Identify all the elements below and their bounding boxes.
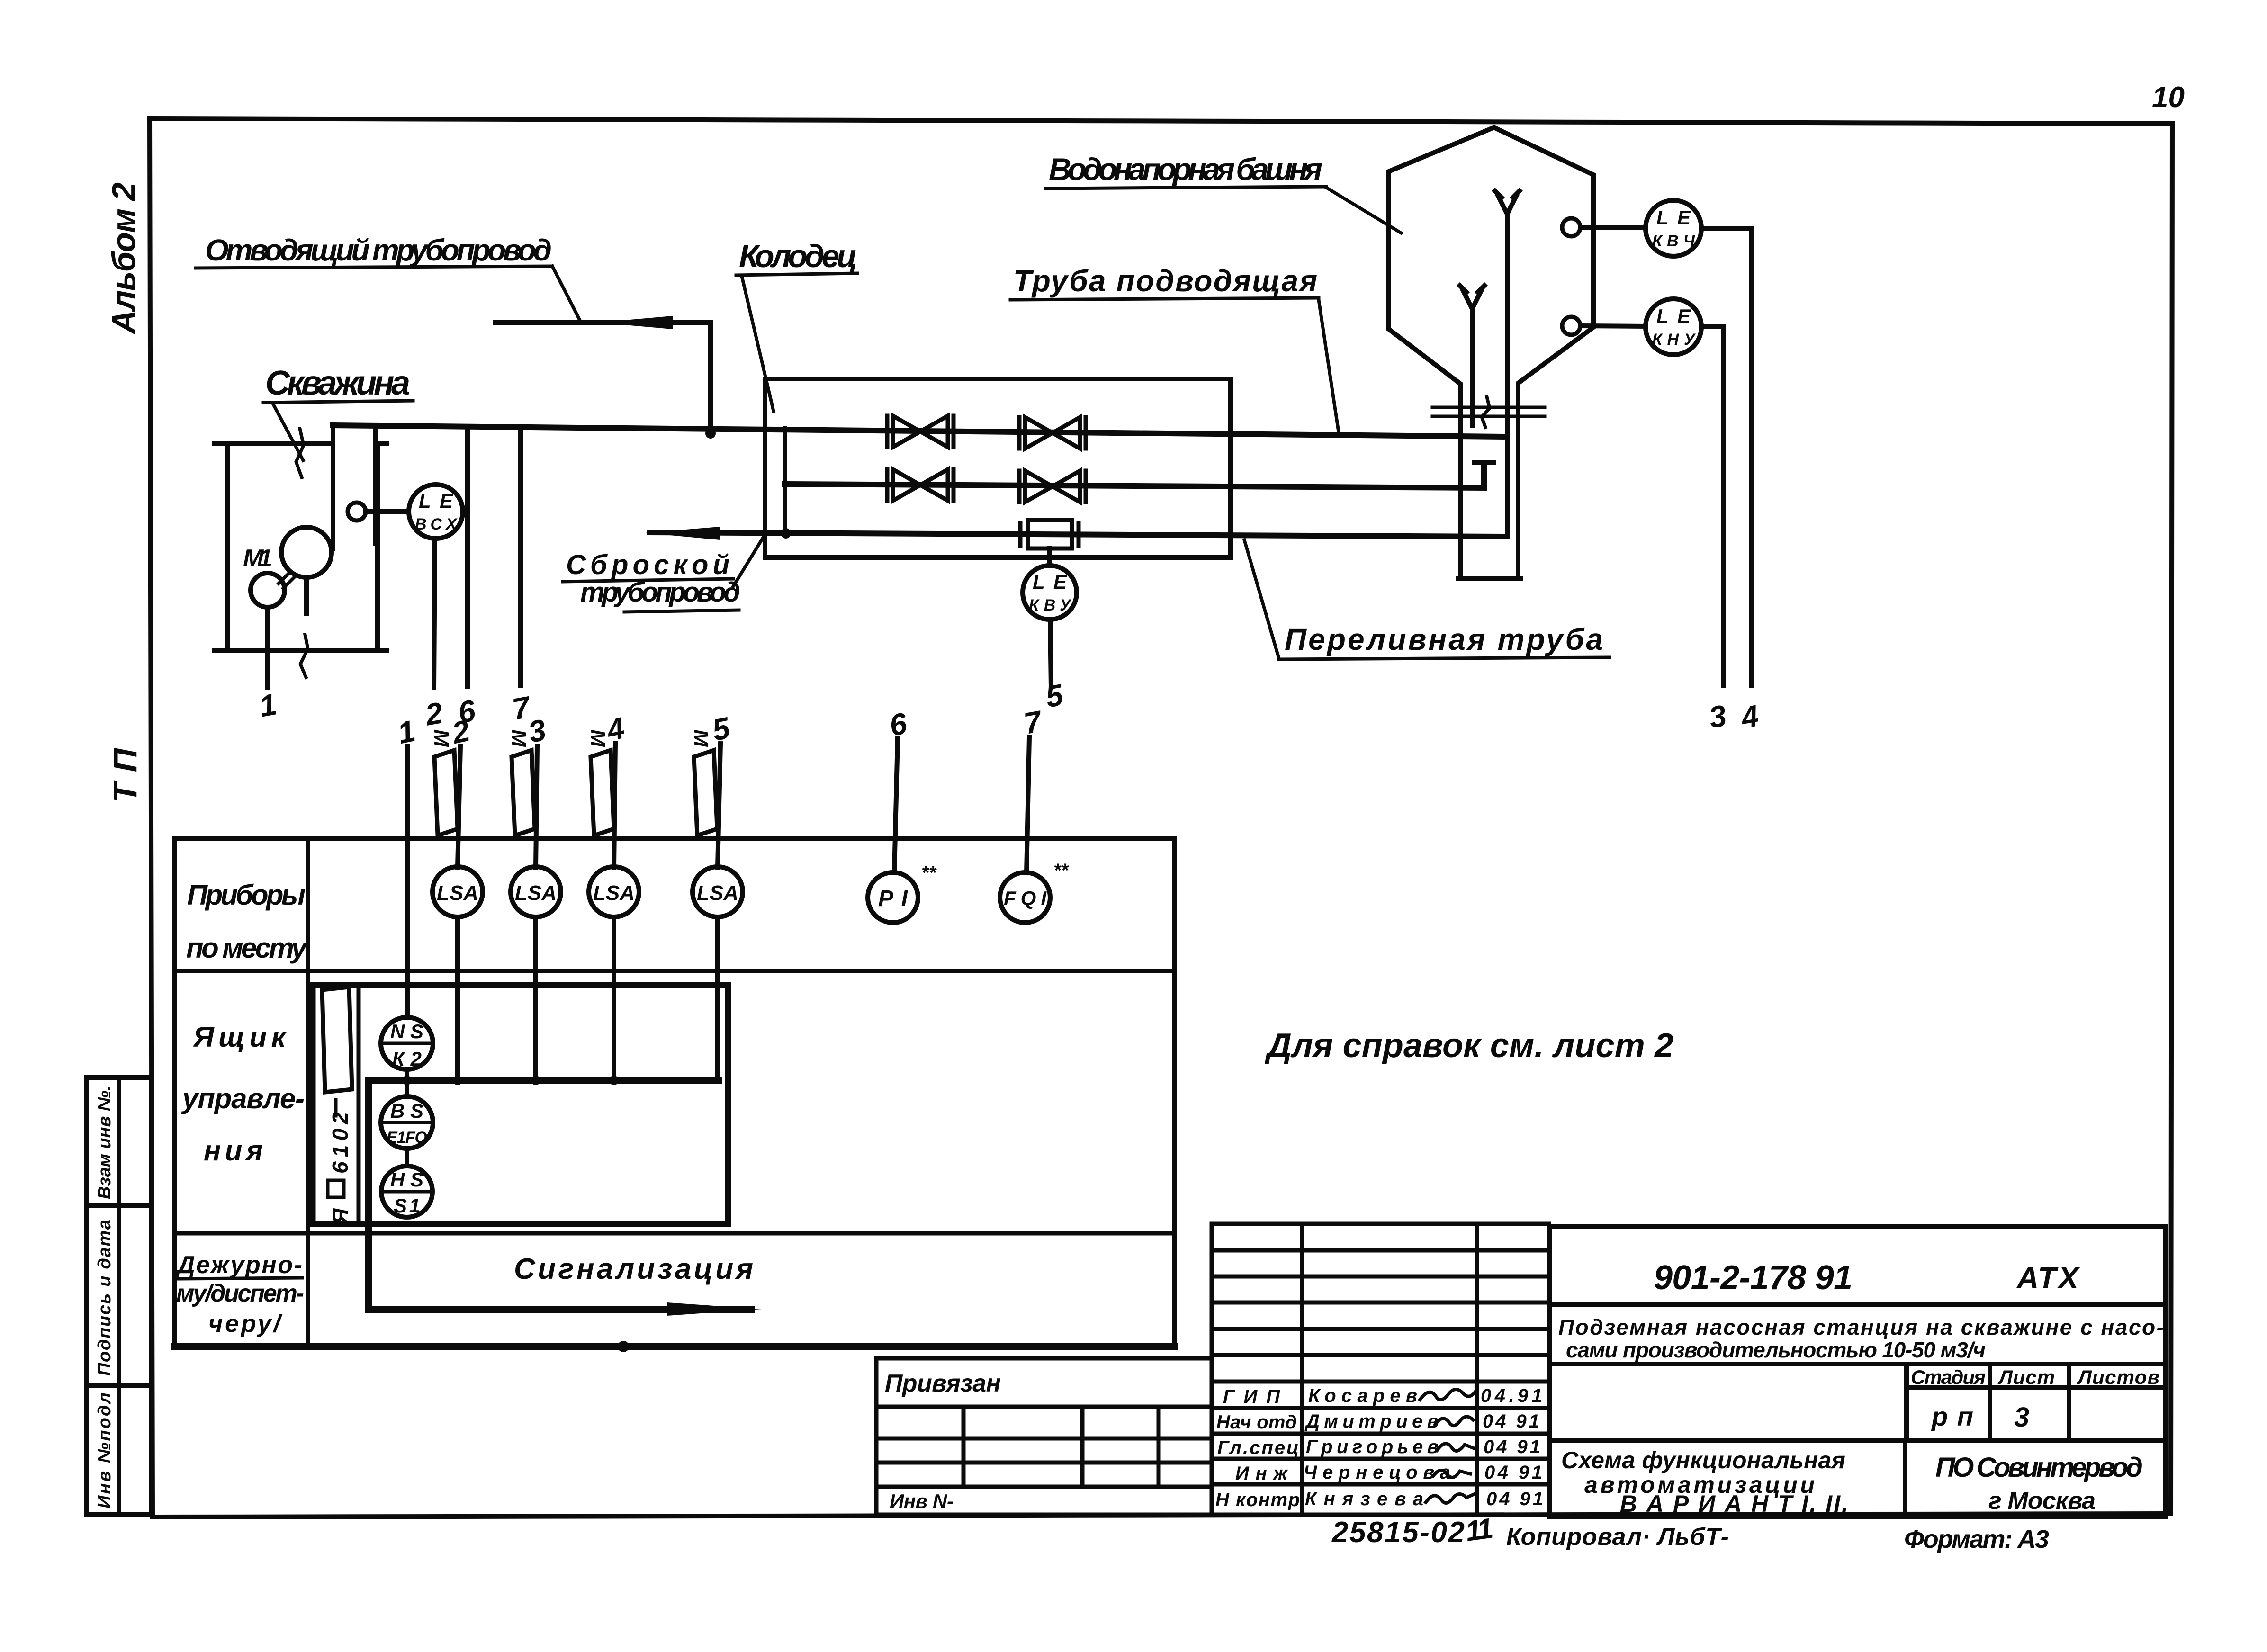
svg-text:**: **: [921, 862, 937, 883]
signature row Гл.спец: [1217, 1437, 1540, 1458]
wire BS to HS: [405, 1149, 409, 1166]
svg-text:трубопровод: трубопровод: [580, 577, 740, 608]
leader to well box: [273, 404, 303, 460]
svg-text:Е1FQ: Е1FQ: [387, 1129, 427, 1147]
wire L4 to LSA3: [614, 744, 615, 867]
wire device to LE КВУ: [1047, 548, 1052, 566]
svg-text:ния: ния: [204, 1135, 263, 1167]
motor M1 circle: [251, 573, 285, 607]
node bus/NS: [402, 1076, 412, 1085]
svg-text:ПО Совинтервод: ПО Совинтервод: [1935, 1452, 2143, 1483]
svg-text:Листов: Листов: [2077, 1366, 2159, 1388]
wire LSA3 to bus: [612, 917, 616, 1080]
node bus/LSA2: [531, 1076, 540, 1085]
valve V2 on pipe1: [1019, 417, 1086, 449]
svg-text:Водонапорная башня: Водонапорная башня: [1049, 152, 1322, 187]
signature scribble 2: [1435, 1417, 1473, 1426]
svg-text:04 91: 04 91: [1483, 1411, 1539, 1432]
wire stub to LE КНУ: [1580, 326, 1646, 326]
svg-text:LSA: LSA: [593, 881, 635, 905]
branch wire pipe1 to pipe3: [783, 429, 787, 533]
water tower body: [1389, 127, 1593, 579]
label Труба подводящая: [1010, 264, 1339, 432]
svg-text:Ящик: Ящик: [192, 1021, 287, 1053]
svg-text:Копировал· ЛьбТ-: Копировал· ЛьбТ-: [1506, 1523, 1729, 1551]
row label Дежурному/диспетчеру: [175, 1251, 304, 1338]
svg-text:М: М: [586, 729, 609, 747]
label Скважина: [263, 364, 413, 460]
flow device on pipe3: [1020, 520, 1079, 548]
svg-text:04.91: 04.91: [1481, 1385, 1542, 1406]
instrument LE КВЧ: [1646, 200, 1701, 256]
wire LSA1 to bus: [455, 917, 460, 1080]
wire L1 to NS/K2: [407, 746, 408, 1018]
drain pipe 3: [650, 532, 1506, 537]
svg-text:04 91: 04 91: [1484, 1437, 1540, 1457]
pressure tap wire 6: [465, 427, 470, 687]
svg-text:11: 11: [1464, 1512, 1495, 1547]
svg-text:сами производительностью 1: сами производительностью 10-50 м3/ч: [1566, 1338, 1986, 1362]
stadia header: [1911, 1366, 2159, 1388]
tank sensor stub upper: [1562, 218, 1580, 236]
instrument NS/K2: [381, 1017, 433, 1070]
svg-text:Приборы: Приборы: [187, 879, 306, 911]
leader to drain junction: [733, 535, 765, 586]
supply riser in tower: [1460, 286, 1484, 425]
node bus/LSA3: [609, 1076, 619, 1085]
svg-text:Инв N-: Инв N-: [890, 1490, 954, 1512]
svg-text:АТХ: АТХ: [2016, 1261, 2080, 1295]
leader to overflow: [1244, 540, 1279, 658]
actuator symbol M2s: [507, 729, 535, 835]
drain flow arrow: [645, 527, 720, 540]
svg-text:LSA: LSA: [515, 881, 557, 905]
flow arrow on discharge pipe: [598, 316, 673, 329]
svg-text:М: М: [689, 729, 712, 747]
svg-text:Подземная насосная станция: Подземная насосная станция на скважине с…: [1558, 1315, 2164, 1339]
leader to chamber: [742, 276, 774, 411]
label Отводящий трубопровод: [196, 233, 580, 320]
svg-text:Сброской: Сброской: [566, 549, 729, 580]
svg-text:Привязан: Привязан: [885, 1370, 1001, 1397]
wire L5 to LSA4: [718, 744, 720, 867]
instrument LSA 1: [432, 867, 483, 917]
wire LSA4 to bus: [715, 917, 720, 1080]
svg-text:Взам инв №.: Взам инв №.: [95, 1086, 115, 1199]
svg-text:Стадия: Стадия: [1911, 1366, 1986, 1388]
svg-text:по месту: по месту: [186, 932, 308, 964]
svg-text:Лист: Лист: [1997, 1366, 2055, 1388]
pipe2 end cap: [1474, 460, 1494, 465]
svg-text:Подпись и дата: Подпись и дата: [95, 1220, 115, 1376]
pump tail line: [304, 577, 309, 613]
wire 3 from LE КНУ: [1701, 327, 1724, 686]
svg-text:М: М: [507, 729, 530, 747]
signature scribble 5: [1426, 1494, 1475, 1503]
instrument LSA 3: [589, 867, 639, 917]
main stamp: [1550, 1227, 2166, 1517]
actuator symbol M3s: [586, 729, 614, 835]
svg-text:S1: S1: [394, 1194, 420, 1217]
svg-text:Труба подводящая: Труба подводящая: [1013, 264, 1317, 298]
svg-text:Отводящий трубопровод: Отводящий трубопровод: [205, 233, 552, 267]
node branch/pipe3: [781, 528, 791, 539]
svg-text:Сигнализация: Сигнализация: [514, 1253, 753, 1285]
wire L2 to LSA1: [458, 746, 460, 867]
wire stub to LE КВЧ: [1580, 227, 1646, 228]
svg-text:г Москва: г Москва: [1988, 1487, 2096, 1515]
leader to supply pipe: [1319, 300, 1339, 432]
svg-text:Григорьев: Григорьев: [1306, 1437, 1439, 1457]
svg-text:LSA: LSA: [697, 881, 738, 905]
overflow pipe in tower: [1495, 191, 1520, 537]
signature row Н контр: [1215, 1489, 1543, 1510]
svg-text:Я: Я: [328, 1208, 352, 1225]
cabinet inner column: [314, 986, 359, 1224]
svg-text:Альбом 2: Альбом 2: [105, 182, 142, 335]
svg-text:управле-: управле-: [181, 1083, 305, 1114]
signature scribble 4: [1433, 1470, 1470, 1477]
signature scribble 3: [1437, 1444, 1474, 1451]
main pipe 1 from well to tower: [333, 425, 1507, 437]
svg-text:М: М: [430, 729, 453, 747]
node discharge/pipe1: [705, 428, 716, 439]
chamber box Колодец: [765, 379, 1231, 557]
wire 5 from LE КВУ: [1050, 619, 1051, 688]
svg-text:04 91: 04 91: [1484, 1462, 1542, 1483]
svg-text:Колодец: Колодец: [739, 238, 857, 274]
svg-text:Для справок см. лист 2: Для справок см. лист 2: [1264, 1027, 1673, 1065]
svg-text:КВУ: КВУ: [1029, 596, 1072, 614]
pump circle: [281, 527, 332, 577]
signalling wire: [369, 1080, 751, 1310]
leader to discharge pipe: [552, 266, 580, 320]
label Переливная труба: [1244, 540, 1610, 659]
signature scribble 1: [1420, 1389, 1477, 1400]
signature row ГИП: [1223, 1385, 1542, 1407]
label Сброской трубопровод: [563, 535, 765, 612]
svg-text:04 91: 04 91: [1486, 1489, 1543, 1509]
leader to tower: [1326, 188, 1401, 233]
instrument table: [174, 838, 1175, 1347]
label Колодец: [736, 238, 857, 411]
svg-text:Схема функциональная: Схема функциональная: [1561, 1447, 1845, 1473]
svg-text:ВСХ: ВСХ: [415, 515, 458, 533]
valve V1 on pipe1: [887, 416, 954, 447]
valve V3 on pipe2: [887, 469, 954, 501]
wire to LE VSH: [366, 509, 409, 514]
svg-text:Нач отд: Нач отд: [1216, 1412, 1297, 1433]
svg-text:Дежурно-: Дежурно-: [175, 1251, 302, 1279]
svg-text:Дмитриев: Дмитриев: [1304, 1411, 1439, 1432]
svg-text:КНУ: КНУ: [1652, 331, 1696, 349]
svg-text:10: 10: [2152, 81, 2185, 114]
signalling arrow: [667, 1302, 762, 1316]
signature row Нач отд: [1216, 1411, 1539, 1433]
signature table: [1212, 1224, 1549, 1515]
instrument FQI: [1000, 860, 1070, 923]
break mark on casing top: [296, 429, 304, 477]
break mark on flange: [1482, 397, 1490, 427]
svg-text:Гл.спец: Гл.спец: [1217, 1437, 1299, 1458]
riser pipe left: [331, 425, 335, 548]
left margin strip: [87, 1077, 152, 1515]
control cabinet outline: [313, 985, 728, 1224]
wire L3 to LSA2: [536, 746, 537, 867]
flow tap wire 7: [518, 427, 523, 686]
instrument LE КНУ: [1646, 299, 1701, 355]
tank bottom flange: [1432, 407, 1545, 416]
scheme name: [1561, 1447, 1848, 1517]
instrument LE КВУ: [1023, 566, 1077, 619]
cabinet tag Я 6102: [328, 1100, 352, 1225]
wire 4 from LE КВЧ: [1701, 228, 1752, 686]
instrument PI: [868, 862, 937, 923]
instrument LSA 2: [511, 867, 561, 917]
svg-text:**: **: [1053, 860, 1070, 881]
discharge pipeline wire: [496, 323, 711, 433]
svg-text:Инв №подл: Инв №подл: [95, 1392, 115, 1508]
riser pipe right: [373, 428, 378, 544]
wire L7 to FQI: [1026, 737, 1029, 873]
bound table Привязан: [876, 1358, 1212, 1515]
svg-text:Переливная труба: Переливная труба: [1285, 622, 1603, 656]
signature row Инж: [1235, 1462, 1542, 1484]
svg-text:му/диспет-: му/диспет-: [176, 1280, 304, 1307]
wire LSA2 to bus: [533, 917, 538, 1080]
svg-text:LSA: LSA: [437, 881, 478, 905]
break mark on casing bottom: [300, 635, 308, 677]
actuator symbol M4s: [689, 729, 717, 835]
sheet frame border: [150, 118, 2172, 1517]
svg-text:Чернецова: Чернецова: [1304, 1462, 1450, 1483]
well casing box: [215, 443, 387, 651]
svg-text:PI: PI: [878, 886, 909, 911]
motor coupling: [279, 572, 295, 588]
wire NS to BS: [405, 1069, 409, 1096]
sensor stub circle: [348, 503, 366, 521]
svg-text:ГИП: ГИП: [1223, 1386, 1280, 1407]
svg-text:Н контр: Н контр: [1215, 1490, 1300, 1510]
svg-text:Инж: Инж: [1235, 1463, 1289, 1484]
wire 2 from LE ВСХ: [434, 539, 435, 688]
cabinet symbol parallelogram: [322, 987, 352, 1092]
wire L6 to PI: [894, 738, 898, 873]
svg-text:Скважина: Скважина: [265, 364, 410, 402]
actuator symbol M1s: [430, 729, 458, 835]
node bus/LSA1: [453, 1076, 462, 1085]
valve V4 on pipe2: [1019, 471, 1086, 502]
wire 1 from motor: [265, 607, 270, 688]
node on table bottom: [618, 1341, 629, 1352]
instrument LE ВСХ: [409, 485, 463, 539]
svg-text:В А Р И А Н Т I, II.: В А Р И А Н Т I, II.: [1620, 1490, 1848, 1517]
label Водонапорная башня: [1046, 152, 1401, 233]
pipe 2 bypass: [785, 463, 1484, 488]
instrument LSA 4: [693, 867, 743, 917]
instrument BS/E1FQ: [381, 1096, 433, 1149]
svg-text:Формат: А3: Формат: А3: [1904, 1525, 2049, 1553]
svg-text:КВЧ: КВЧ: [1652, 232, 1695, 250]
tank sensor stub lower: [1562, 317, 1580, 335]
svg-text:3: 3: [2014, 1402, 2029, 1433]
svg-text:901-2-178 91: 901-2-178 91: [1654, 1259, 1853, 1297]
svg-text:25815-02: 25815-02: [1331, 1516, 1465, 1549]
svg-text:FQI: FQI: [1004, 887, 1047, 910]
signal bus: [369, 1077, 719, 1084]
svg-text:М1: М1: [243, 545, 272, 572]
instrument HS/S1: [381, 1166, 432, 1217]
